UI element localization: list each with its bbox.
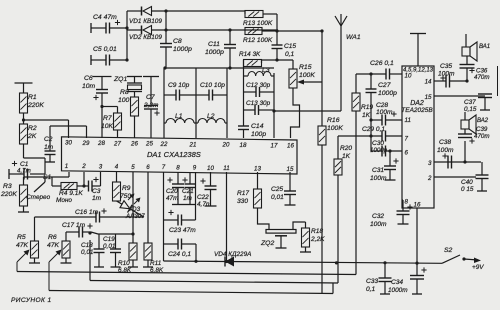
svg-text:0,01: 0,01 — [81, 249, 94, 256]
svg-text:11: 11 — [223, 165, 229, 172]
svg-text:15: 15 — [287, 166, 294, 173]
svg-text:ZQ1: ZQ1 — [113, 76, 127, 83]
svg-text:100m: 100m — [376, 109, 393, 116]
svg-text:2,2K: 2,2K — [310, 236, 325, 243]
svg-text:1m: 1m — [92, 195, 102, 202]
svg-text:10K: 10K — [101, 123, 114, 130]
svg-text:100: 100 — [118, 97, 130, 104]
svg-text:+9V: +9V — [472, 264, 484, 271]
svg-text:100K: 100K — [299, 72, 315, 79]
svg-text:100K: 100K — [327, 125, 343, 132]
svg-text:C14: C14 — [251, 123, 264, 130]
svg-text:100p: 100p — [251, 131, 266, 138]
svg-text:C6: C6 — [84, 75, 93, 82]
svg-text:C16 1m: C16 1m — [75, 209, 99, 216]
svg-text:1000p: 1000p — [205, 49, 224, 56]
svg-text:C2: C2 — [44, 136, 53, 143]
svg-text:16: 16 — [414, 202, 421, 209]
svg-text:10: 10 — [405, 73, 412, 80]
svg-text:ВА1: ВА1 — [479, 44, 490, 50]
svg-text:2: 2 — [427, 175, 432, 182]
svg-text:VD1 КВ109: VD1 КВ109 — [129, 18, 162, 25]
svg-text:VD3: VD3 — [128, 206, 141, 213]
svg-text:L2: L2 — [207, 113, 215, 120]
svg-text:8: 8 — [405, 199, 409, 206]
svg-text:220K: 220K — [0, 191, 17, 198]
svg-text:0,1: 0,1 — [285, 51, 294, 58]
svg-text:1: 1 — [65, 163, 68, 170]
svg-text:4,7n: 4,7n — [197, 201, 210, 208]
svg-text:6: 6 — [146, 164, 150, 171]
svg-text:Моно: Моно — [56, 197, 72, 204]
svg-text:6: 6 — [405, 150, 409, 157]
svg-text:C5 0,01: C5 0,01 — [93, 46, 117, 53]
svg-text:22: 22 — [160, 141, 168, 148]
svg-text:4,7m: 4,7m — [17, 168, 31, 175]
svg-text:16: 16 — [287, 143, 294, 150]
svg-text:R11: R11 — [150, 260, 162, 267]
svg-text:ТЕА2025В: ТЕА2025В — [401, 107, 433, 114]
svg-text:WA1: WA1 — [346, 34, 361, 41]
svg-text:C22: C22 — [197, 194, 209, 201]
svg-text:27: 27 — [113, 140, 121, 147]
svg-text:ZQ2: ZQ2 — [260, 240, 274, 247]
svg-text:R6: R6 — [48, 234, 57, 241]
svg-text:100m: 100m — [370, 175, 387, 182]
svg-text:C37: C37 — [464, 99, 476, 106]
svg-text:R14 3K: R14 3K — [239, 51, 261, 58]
svg-text:C28: C28 — [376, 102, 388, 109]
svg-text:28: 28 — [97, 140, 105, 147]
svg-text:100m: 100m — [437, 147, 454, 154]
svg-text:R9: R9 — [122, 185, 131, 192]
svg-text:R17: R17 — [237, 190, 249, 197]
svg-text:220K: 220K — [27, 102, 44, 109]
svg-text:15: 15 — [425, 94, 432, 101]
svg-text:1m: 1m — [44, 144, 54, 151]
svg-text:4: 4 — [115, 164, 119, 171]
svg-text:2K: 2K — [27, 133, 37, 140]
svg-text:C12 30p: C12 30p — [246, 82, 271, 89]
svg-text:C10 10p: C10 10p — [200, 82, 225, 89]
svg-text:C25: C25 — [271, 186, 283, 193]
svg-text:1K: 1K — [362, 112, 371, 119]
svg-text:1000p: 1000p — [173, 46, 192, 53]
svg-text:DA2: DA2 — [410, 100, 424, 107]
svg-text:30: 30 — [65, 140, 72, 147]
svg-text:R16: R16 — [327, 117, 340, 124]
svg-text:C20: C20 — [166, 188, 178, 195]
svg-text:1K: 1K — [342, 153, 351, 160]
svg-text:2,2m: 2,2m — [143, 102, 159, 109]
svg-text:R4 9.1K: R4 9.1K — [59, 190, 83, 197]
svg-text:5: 5 — [131, 164, 135, 171]
svg-text:C38: C38 — [439, 139, 451, 146]
svg-text:C23 47m: C23 47m — [169, 227, 196, 234]
svg-text:C26 0,1: C26 0,1 — [370, 60, 394, 67]
svg-text:R3: R3 — [3, 183, 12, 190]
svg-text:L1: L1 — [175, 113, 183, 120]
svg-text:VD4 КД229А: VD4 КД229А — [214, 251, 251, 258]
svg-text:R13 100K: R13 100K — [243, 20, 273, 27]
svg-text:R18: R18 — [311, 228, 323, 235]
svg-text:C39: C39 — [476, 126, 488, 133]
svg-text:100m: 100m — [370, 221, 387, 228]
svg-text:2: 2 — [81, 163, 86, 170]
svg-text:R1: R1 — [28, 94, 37, 101]
svg-text:DA1 CXA1238S: DA1 CXA1238S — [147, 150, 201, 159]
svg-text:C4 47m: C4 47m — [93, 14, 117, 21]
svg-text:C30: C30 — [372, 140, 384, 147]
svg-text:Стерео: Стерео — [26, 194, 51, 201]
svg-text:РИСУНОК 1: РИСУНОК 1 — [11, 297, 52, 304]
svg-text:C29 0,1: C29 0,1 — [362, 126, 385, 133]
svg-text:C18: C18 — [81, 242, 93, 249]
svg-text:C24 0,1: C24 0,1 — [168, 251, 191, 258]
svg-text:C17 1m: C17 1m — [62, 222, 86, 229]
svg-text:470m: 470m — [474, 74, 489, 81]
svg-text:R7: R7 — [103, 115, 112, 122]
svg-text:1m: 1m — [183, 195, 193, 202]
svg-text:R20: R20 — [340, 145, 352, 152]
svg-text:C27: C27 — [378, 82, 391, 89]
svg-text:21: 21 — [189, 141, 197, 148]
svg-text:R12 100K: R12 100K — [243, 37, 273, 44]
svg-text:10m: 10m — [82, 83, 96, 90]
svg-text:1000p: 1000p — [370, 147, 388, 154]
svg-text:L3: L3 — [262, 67, 270, 74]
svg-text:18: 18 — [240, 142, 247, 149]
svg-text:7: 7 — [405, 136, 409, 143]
svg-text:C15: C15 — [284, 43, 296, 50]
svg-text:25: 25 — [145, 141, 153, 148]
svg-text:C40: C40 — [461, 179, 473, 186]
svg-text:C19: C19 — [103, 236, 115, 243]
svg-text:47K: 47K — [47, 242, 60, 249]
svg-text:R15: R15 — [299, 64, 312, 71]
svg-text:9: 9 — [193, 165, 197, 172]
svg-text:1000p: 1000p — [378, 90, 397, 97]
svg-text:0 15: 0 15 — [461, 186, 474, 193]
svg-text:C31: C31 — [372, 167, 384, 174]
svg-text:7: 7 — [162, 164, 166, 171]
svg-text:C35: C35 — [440, 63, 452, 70]
svg-text:C7: C7 — [146, 94, 155, 101]
svg-text:1000m: 1000m — [388, 287, 408, 294]
svg-text:29: 29 — [82, 140, 90, 147]
svg-text:13: 13 — [254, 165, 261, 172]
svg-text:8: 8 — [176, 164, 180, 171]
svg-text:C32: C32 — [372, 213, 384, 220]
svg-text:S2: S2 — [444, 247, 453, 254]
svg-text:C9 10p: C9 10p — [168, 82, 190, 89]
svg-text:R10: R10 — [118, 260, 130, 267]
svg-text:0,15: 0,15 — [464, 106, 477, 113]
svg-text:14: 14 — [425, 79, 432, 86]
svg-text:47m: 47m — [166, 195, 179, 202]
svg-text:0,01: 0,01 — [271, 194, 284, 201]
svg-text:C11: C11 — [208, 41, 220, 48]
svg-text:C34: C34 — [391, 279, 403, 286]
svg-text:17: 17 — [271, 142, 278, 149]
svg-text:VD2 КВ109: VD2 КВ109 — [129, 34, 162, 41]
svg-text:20: 20 — [222, 142, 230, 149]
svg-text:0,01: 0,01 — [103, 243, 116, 250]
svg-text:C13 30p: C13 30p — [246, 100, 271, 107]
svg-text:10: 10 — [207, 165, 214, 172]
svg-text:C33: C33 — [366, 278, 378, 285]
svg-text:R5: R5 — [17, 234, 26, 241]
svg-text:100m: 100m — [438, 71, 455, 78]
svg-text:26: 26 — [130, 140, 138, 147]
svg-text:11: 11 — [405, 117, 411, 124]
svg-text:C8: C8 — [173, 38, 182, 45]
svg-text:R8: R8 — [120, 89, 129, 96]
svg-text:330: 330 — [237, 198, 248, 205]
svg-text:C21: C21 — [182, 188, 194, 195]
svg-text:3: 3 — [428, 160, 432, 167]
svg-text:R2: R2 — [28, 125, 37, 132]
svg-text:3: 3 — [99, 163, 103, 170]
svg-text:ВА2: ВА2 — [477, 118, 489, 124]
svg-text:C3: C3 — [92, 188, 101, 195]
svg-text:47K: 47K — [16, 242, 29, 249]
svg-text:0,1: 0,1 — [366, 286, 375, 293]
